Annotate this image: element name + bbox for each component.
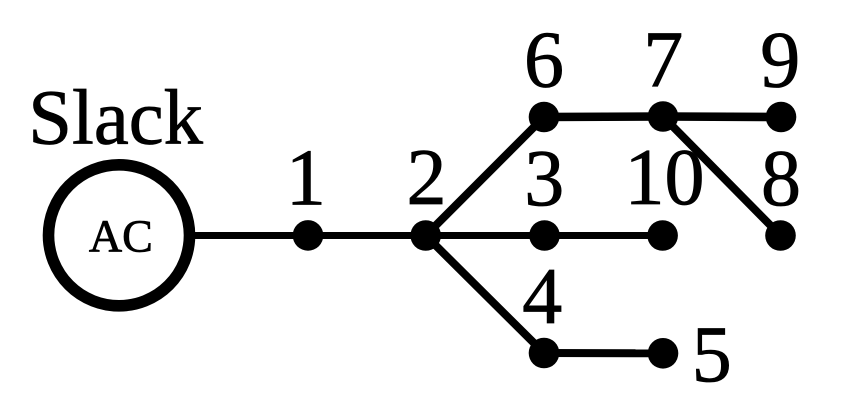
svg-text:5: 5 bbox=[692, 311, 732, 399]
svg-text:1: 1 bbox=[286, 135, 326, 223]
svg-text:10: 10 bbox=[625, 134, 705, 222]
svg-text:Slack: Slack bbox=[28, 75, 203, 162]
svg-text:7: 7 bbox=[643, 17, 683, 105]
svg-text:6: 6 bbox=[524, 17, 564, 105]
svg-text:8: 8 bbox=[761, 135, 801, 223]
svg-text:3: 3 bbox=[524, 135, 564, 223]
svg-text:9: 9 bbox=[760, 17, 800, 105]
svg-text:4: 4 bbox=[522, 253, 562, 341]
svg-text:AC: AC bbox=[89, 210, 153, 261]
svg-text:2: 2 bbox=[407, 134, 447, 222]
